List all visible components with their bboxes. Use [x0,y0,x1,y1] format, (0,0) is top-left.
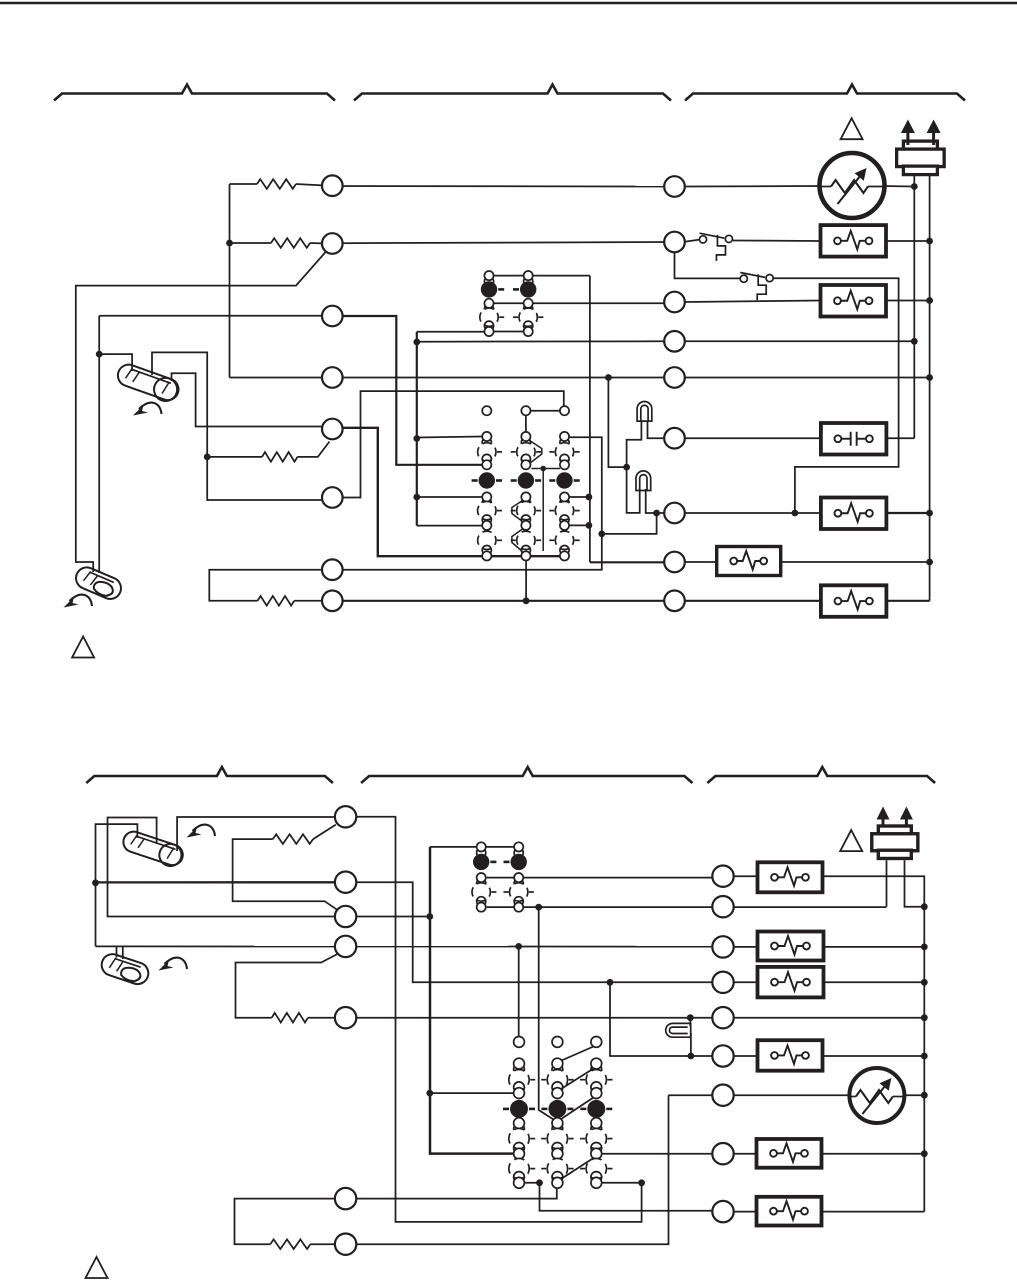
wire B mercury M4 electrodes [117,946,123,959]
wire vertical bus x=229.5 [229,184,231,378]
terminal BR2 [712,896,733,917]
relay box 5b [757,1139,822,1168]
wire B L6-L7 loop resistor [235,1199,336,1245]
block B diagonal 2 [561,1069,594,1090]
node dot at relay W2 wire [792,510,799,517]
node dot B bus 906 [921,903,928,910]
transformer (top diagram) [903,141,937,150]
wire resistor R1 to L1 [296,184,322,185]
terminal L3 [322,306,343,327]
wire B L6 row to block col2 bottom [357,1188,557,1198]
node dot B col1 bottom [536,1179,543,1186]
relay box (top row R9) [821,585,887,617]
wire upper block bottom row to bus [417,331,524,333]
terminal R9 [664,591,685,612]
brace 2 (subbase section, top diagram) [354,85,671,101]
wire resistor diagonal to L5 [298,442,330,457]
wire B row4 to R3 [96,945,713,947]
wire block top row col2-col3 [530,410,560,412]
wire bus417 to col1 row436 [417,437,482,438]
wire row2 L2-R2 [332,242,674,243]
wire B row5 to R5 [356,1017,712,1019]
wire R2-switch to relay box A [733,240,821,243]
node dot B bus 1095 [921,1092,928,1099]
wire B row1154 left [602,1153,713,1155]
mercury switch M1 (top diagram) [114,362,181,405]
transformer B arrow right [900,807,913,820]
node dot col2 drop on row8 [523,597,530,604]
terminal R4 [664,331,685,352]
terminal R6 [664,428,685,449]
warning triangle (bottom of page) [86,1257,108,1278]
node dot B x95 row882 [92,879,99,886]
node dot B col3 bottom [638,1179,645,1186]
brace 6 (system section, bottom) [707,767,935,783]
relay box A (top row2) [821,225,887,257]
wire col3 bus x589.9 [589,276,591,563]
wire B resistor to L7b [310,1243,335,1245]
wire anticipator to resistor [207,456,262,458]
wire B bus430 to col1 1093 [430,1092,514,1094]
terminal BR9 [712,1201,733,1222]
wire L7 loop to resistor row8 [209,570,322,601]
wire B rheostat to bus [904,1094,924,1096]
node dot B bulb bottom [688,1053,695,1060]
transformer left lead (top) [913,172,915,438]
wire R4 to left lead bus [685,340,915,342]
wire bus417 to col1 row525 [417,525,482,527]
wire upper block row303 to R3 [494,302,665,304]
wire B row947 box2 [734,946,758,948]
upper connector block (bottom diagram) [477,848,486,857]
rotation arrow for M2 [64,595,93,608]
node dot right-bus 562 [926,559,933,566]
terminal R7 [664,503,685,524]
wire B box1b to bus corner [823,876,925,1211]
wire B L3 right to bus430 [356,916,430,918]
node dot B bus 947 [921,944,928,951]
wire mercury sw1 right electrode to L5 [172,373,333,426]
aux switch S2 (top) [740,275,747,282]
terminal BL5 [335,1007,356,1028]
wire mercury sw1 middle electrode to anticipator bus [152,352,332,500]
warning triangle 1 (bottom left, top diagram) [72,637,94,658]
relay box 2b [758,932,824,961]
wire R3 to box B [685,301,821,303]
wire R6 to capacitor box [685,437,821,439]
wire B row1154 box5 [734,1153,758,1155]
terminal R1 [664,176,685,197]
indicator lamp LP1 (top) [637,402,652,422]
node dot x99/y354 [96,351,103,358]
indicator lamp LP2 (top) [636,471,651,491]
resistor R1 (top row) [257,179,296,189]
wire B resistor to L5 [308,1017,335,1019]
resistor B anticipator [272,1013,308,1023]
wire boxB to right bus [885,300,929,302]
terminal BL1 [335,806,356,827]
wire box4 to right bus corner [885,600,929,602]
wire block feed bus x417 [416,332,418,526]
wire B box5b to bus [822,1153,924,1155]
wire L5 right to block bus [342,428,560,556]
wire branch to R7 node [602,513,657,534]
terminal BL6 [335,1188,356,1209]
node dot right-bus 513 [926,510,933,517]
relay box small (top row R8) [717,547,781,576]
wire mercury sw1 left electrode [99,354,132,371]
transformer arrow right (top) [927,120,941,134]
block B diagonal 1 [562,1047,594,1061]
wire B box3b to bus [823,981,924,983]
wire B upper block row877 to R1 [487,877,713,879]
wire B upper block row907 to R2 [487,906,887,908]
terminal L7 [322,559,343,580]
terminal R2 [664,232,685,253]
wire L7 right to col3 bus [342,437,602,569]
node dot B row982 branch [607,979,614,986]
wire B branch to block col1 top [518,946,520,1036]
wire R2 down to aux switch chain [675,252,741,278]
wire B bulb legs [689,1018,692,1056]
mercury switch M4 (bottom diagram) [99,951,151,987]
wire B box6b to bus [822,1211,924,1213]
block B diagonal 3 [561,1098,594,1120]
wire upper block top row [494,275,590,277]
wire B row1095 to rheostat [734,1094,850,1096]
wire block dot543 [532,469,561,552]
wire R7 to box W2 [685,512,821,514]
node dot B bus430 row916 [426,913,433,920]
wire B row1056 box to bus [734,1055,758,1057]
terminal L4 [322,367,343,388]
wire B upper block top row [430,846,514,848]
wire R-row1 thermostat to clock [332,185,674,188]
wire corner to resistor R1 [230,183,258,185]
node dot L7 bus branch [598,531,605,538]
wire B bus430 vertical [430,847,513,1154]
brace 4 (thermostat section, bottom) [86,767,333,783]
node dot B bus 1018 [921,1014,928,1021]
capacitor box (top row R6) [821,423,887,455]
node dot anticipator junction [204,454,211,461]
node dot right-bus 377 [926,374,933,381]
upper connector block (top diagram) [484,277,493,286]
terminal R3 [664,292,685,313]
relay box 3b [758,967,824,998]
wire clock to left lead [885,185,915,188]
wire B row1095 left [669,1094,713,1096]
wire row8 L8-R9 [342,600,664,602]
wire B row1 from mercury M3 [177,817,335,851]
block col2 wiper zigzag lower1 [512,501,523,522]
node dot right-bus 241 [926,238,933,245]
node dot B bulb top [687,1014,694,1021]
page top rule [0,2,1017,5]
wire B L2 right chain to row982 [356,882,712,982]
wire x229 bus to L4 [230,377,323,379]
resistor R8 (row8) [258,596,295,606]
wire L2 switch diagonal and left leg [76,251,327,572]
wire mercury bus down to M2 [98,354,100,573]
terminal BL4 [335,936,356,957]
node dot lamp mid [623,464,630,471]
resistor R2 (row2) [271,238,310,248]
rotation arrow for M1 [133,403,162,416]
wire long row to R4 [417,340,665,342]
node dot left-lead row341 [911,338,918,345]
wire block col2 top stub [525,415,527,432]
wire B L4 diagonal loop resistor to L5 [236,954,338,1018]
relay box 4b [758,1040,823,1071]
terminal BL7 [335,1234,356,1255]
transformer arrow left (top) [901,120,915,134]
wire B row982 box3 [734,981,758,983]
wire col3 row525 stub [569,524,589,526]
terminal BR3 [712,936,733,957]
wire capbox to left lead [886,437,915,439]
wire aux switch2 to relay W2 [774,278,899,513]
wire L6 up-over to block col3 top [342,391,564,497]
node dot on x229 bus [226,240,233,247]
wire boxA to right bus [886,240,930,242]
terminal BR6 [712,1045,733,1066]
terminal BR1 [712,866,733,887]
wire B branch538 to block col2 [539,907,558,1122]
wire lamp1 legs [627,422,665,468]
wire B row2 from dot [96,881,336,883]
node dot bus417 row438 [413,435,420,442]
resistor B row1 [273,834,313,844]
brace 5 (subbase section, bottom) [361,767,692,783]
node dot col3 row525 [586,522,593,529]
wire block col2 bottom to row8 [525,561,527,601]
node dot B bus 1056 [921,1053,928,1060]
terminal BR4 [712,972,733,993]
central connector block (bottom diagram) [514,1037,525,1048]
node dot row4 lamp branch [605,374,612,381]
block col2 wiper zigzag upper [530,441,542,464]
wire B L7 to row1095 [357,1095,669,1244]
transformer B arrow left [877,807,890,820]
node dot bus417 row342 [413,339,420,346]
transformer (bottom diagram) [878,826,911,834]
terminal L1 [322,175,343,196]
wire bus417 to col1 row497 [417,496,482,498]
node dot col3 row497 [586,494,593,501]
terminal BR7 [712,1085,733,1106]
relay box 1b [758,862,823,892]
wire dot to resistor R2 [230,242,272,244]
wire R9 to box4 [685,600,821,602]
node dot B bus 982 [921,979,928,986]
node dot block 543 [540,466,546,472]
wire B box4b to bus [823,1055,925,1057]
node dot lamp2 to R7 [653,510,660,517]
terminal BL2 [335,872,356,893]
terminal R5 [664,367,685,388]
wire B mercury M3 mid electrode to L3 [108,818,336,917]
node dot B bus430 1093 [426,1090,433,1097]
wire R1 to clock circle [685,185,820,188]
node dot right-bus 300 [926,297,933,304]
wire col3 row497 stub [569,496,589,498]
wire resistor R2 to L2 [310,242,322,244]
relay box B (top row3) [821,285,887,317]
node dot B row907 x538 [535,904,542,911]
mercury switch M2 (top diagram) [73,564,125,602]
block col2 wiper zigzag lower2 [512,529,523,552]
warning triangle near transformer (bottom) [840,830,862,851]
block B diagonal 4 [561,1158,594,1179]
wire B block col1 bottom to row1211 [525,1183,713,1211]
wire B box2b to bus [823,946,924,948]
node dot B row946 branch [515,943,522,950]
node dot bus417 row497 [413,494,420,501]
brace 3 (system section, top diagram) [685,85,965,101]
wire R8 to box3 [685,561,717,563]
transformer B left lead [886,860,888,906]
wire B row876 box1 [734,875,758,877]
terminal L6 [322,487,343,508]
wire box3 to right bus [781,561,930,563]
rotation arrow for M3 [187,825,216,838]
rheostat circle (bottom) [849,1068,904,1123]
wire B resistor1 diagonal to L1 [313,825,336,840]
node dot left-lead row186 [911,183,918,190]
terminal L8 [322,591,343,612]
clock motor / rheostat circle (top) [820,153,885,218]
wire R2 to switch S1 [685,240,700,242]
wire L3 from mercury switch bus [99,316,332,354]
rotation arrow for M4 [159,958,188,971]
transformer B right lead [905,860,925,906]
wire B resistor1 left leg to L3 diagonal [233,839,338,910]
wire B col3 bottom row [602,1182,642,1184]
relay box W2 (top row R7) [821,498,887,530]
central connector block (top diagram) [482,406,491,415]
terminal BR8 [712,1143,733,1164]
brace 1 (thermostat section, top diagram) [54,85,335,101]
wire B branch to row 1056 [610,982,712,1056]
terminal BR5 [712,1007,733,1028]
transformer right lead bus [929,172,931,601]
wire lamp2 legs [627,467,665,513]
wire B row1018 to bus [734,1017,925,1019]
aux switch S1 (top) [699,236,706,243]
warning triangle near transformer (top) [841,118,863,139]
wire row4 L4-R5 long [342,377,664,379]
terminal L5 [322,419,343,440]
terminal L2 [322,233,343,254]
wire R5 to right bus [685,377,930,379]
resistor heat anticipator (top) [262,452,298,462]
wire lamp chain down [608,378,626,468]
wire resistor R8 to L8 [294,600,322,602]
terminal R8 [664,552,685,573]
terminal BL3 [335,906,356,927]
wire L3 to block col1 row465 [342,316,482,465]
resistor B row L7 [270,1239,310,1249]
wire B L1 right chain to col3 bottom [356,817,641,1222]
wire W2 box to right bus [885,512,929,514]
wire B mercury M3 left electrode [96,824,138,946]
relay box 6b [757,1197,822,1226]
node dot B bus 1154 [921,1150,928,1157]
wire B row1211 box6 [734,1211,758,1213]
indicator bulb (bottom, sideways) [666,1023,691,1037]
wire col3 bus to R8 [590,561,665,563]
mercury switch M3 (bottom diagram) [120,829,185,869]
